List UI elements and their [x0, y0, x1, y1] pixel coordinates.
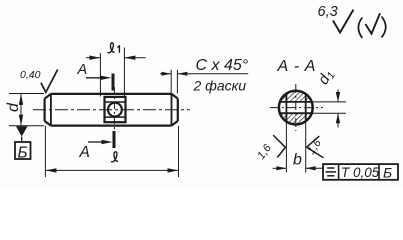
datum Б connector	[21, 137, 23, 143]
dimension b line and arrows	[273, 166, 323, 170]
hole edge bottom chord	[280, 112, 312, 114]
hole vertical centerline	[113, 87, 115, 133]
section vertical centerline	[295, 84, 297, 131]
slot inner line top	[105, 101, 126, 103]
section hatching bottom segment	[280, 113, 312, 124]
pin body outline	[45, 94, 178, 126]
section arrow bottom	[88, 140, 113, 144]
svg-text:b: b	[293, 152, 302, 169]
symmetry symbol	[326, 168, 336, 176]
dimension l line and arrows	[45, 168, 178, 172]
slot inner line bottom	[105, 116, 126, 118]
pin right chamfer edge	[171, 94, 173, 126]
svg-text:A - A: A - A	[277, 58, 317, 75]
label l1	[108, 43, 120, 53]
svg-text:Б: Б	[18, 145, 28, 162]
svg-text:C x 45°: C x 45°	[196, 57, 249, 74]
slot edge left chord	[285, 94, 287, 122]
section A-A circle	[279, 91, 313, 125]
svg-text:A: A	[77, 62, 88, 78]
tolerance frame	[323, 164, 398, 180]
section cutting stroke top	[112, 74, 115, 91]
datum Б triangle	[16, 126, 28, 136]
svg-text:0,40: 0,40	[20, 69, 41, 81]
svg-text:2 фаски: 2 фаски	[193, 78, 247, 94]
dimension d line and arrows	[19, 94, 23, 126]
chamfer dimension arrows / leader	[160, 72, 248, 76]
svg-text:6,3: 6,3	[318, 4, 338, 20]
parentheses with check	[358, 18, 362, 39]
roughness 1,6 mark left	[273, 135, 285, 157]
svg-text:Б: Б	[383, 165, 392, 181]
pin axis centerline	[33, 109, 190, 111]
pin left chamfer edge	[50, 94, 52, 126]
label l bottom	[111, 152, 118, 162]
dimension d extension lines	[9, 93, 44, 95]
general roughness check top-right	[333, 10, 354, 33]
datum Б box	[15, 142, 31, 159]
slot square	[105, 97, 126, 122]
dimension l extension lines	[44, 126, 46, 177]
section hatching top segment	[280, 91, 312, 102]
roughness 0,40 mark	[41, 70, 58, 93]
dimension b extension (slot chords extended)	[285, 122, 287, 173]
chamfer dimension extension lines	[170, 70, 172, 94]
svg-text:d: d	[5, 102, 22, 112]
dimension d1 extension lines	[312, 101, 346, 103]
dimension l1 line and arrows	[86, 56, 146, 60]
svg-text:A: A	[79, 144, 90, 161]
section cutting stroke bottom	[113, 131, 116, 148]
dimension d1 line and arrows	[336, 90, 340, 128]
section horizontal centerline	[270, 107, 323, 109]
hole edge top chord	[280, 101, 312, 103]
dimension l1 extension lines	[99, 53, 101, 97]
roughness 1,6 mark right	[307, 136, 324, 158]
section arrow top	[86, 76, 112, 80]
hole circle	[108, 103, 122, 117]
slot edge right chord	[305, 94, 307, 121]
svg-text:T 0,05: T 0,05	[341, 165, 380, 180]
